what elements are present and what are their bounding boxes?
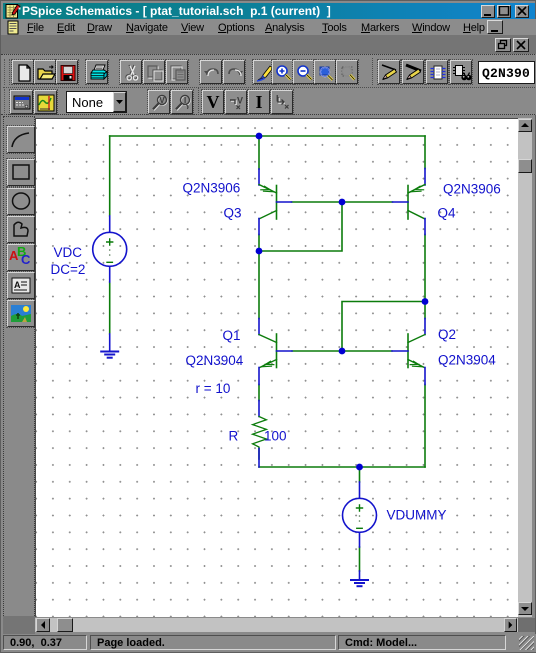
wire lower base rail <box>292 350 392 352</box>
node top rail junction <box>256 133 263 140</box>
row 2 <box>10 90 33 114</box>
svg-text:DC=2: DC=2 <box>51 262 86 277</box>
transistor Q3 (Q2N3906 PNP) <box>259 169 292 235</box>
row 1 <box>12 60 34 84</box>
svg-text:Q2N3904: Q2N3904 <box>438 353 496 368</box>
part name edit box <box>478 61 535 84</box>
wire Q4 emitter drop <box>424 136 426 169</box>
node bottom rail junction <box>356 464 363 471</box>
status bar <box>1 634 536 652</box>
svg-text:VDC: VDC <box>54 245 83 260</box>
svg-text:Q3: Q3 <box>224 206 242 221</box>
transistor Q1 (Q2N3904 NPN) <box>259 319 292 385</box>
transistor Q2 (Q2N3904 NPN) <box>392 319 425 385</box>
svg-text:R: R <box>229 429 239 444</box>
menu bar line 2 with MDI restore/close <box>1 35 536 54</box>
svg-text:Q4: Q4 <box>438 206 457 221</box>
menu bar line 1 <box>1 19 536 35</box>
wire Q3 emitter drop <box>258 136 260 169</box>
wire Q2 diode connection <box>342 302 425 352</box>
node Q3 collector junction <box>256 248 263 255</box>
voltage source VDUMMY <box>343 482 377 547</box>
svg-text:V: V <box>159 96 165 105</box>
wire upper base rail <box>292 201 393 203</box>
svg-text:Q1: Q1 <box>223 328 241 343</box>
title bar <box>3 3 535 19</box>
toolbar dock <box>1 54 536 115</box>
svg-text:A: A <box>14 280 21 290</box>
vertical scrollbar <box>518 118 532 617</box>
wire Q1 emitter to resistor <box>258 385 260 401</box>
svg-text:V: V <box>237 96 243 106</box>
wire Q2 emitter to bottom rail <box>424 385 426 468</box>
left tool strip <box>3 116 35 636</box>
wire Q3 diode connection <box>259 202 342 251</box>
svg-text:C: C <box>21 252 31 267</box>
ground (VDC) <box>101 334 118 358</box>
svg-text:Q2N3906: Q2N3906 <box>443 182 501 197</box>
wire bottom rail <box>259 466 425 468</box>
voltage source VDC <box>93 216 127 282</box>
svg-text:I: I <box>184 96 186 105</box>
svg-text:100: 100 <box>264 429 287 444</box>
none combo <box>66 91 127 113</box>
wire VDC to ground <box>109 282 111 334</box>
resistor R <box>253 401 267 468</box>
wire Q3 collector to Q1 collector <box>258 235 260 319</box>
ground (VDUMMY) <box>351 571 368 586</box>
wire VDUMMY to ground <box>359 547 361 571</box>
node junction dots <box>256 133 429 471</box>
horizontal scrollbar <box>35 618 518 632</box>
canvas <box>35 118 518 617</box>
svg-text:Q2N3906: Q2N3906 <box>183 181 241 196</box>
node Q2 collector junction <box>422 298 429 305</box>
wire resistor bottom stub <box>258 449 260 460</box>
wire top rail <box>110 135 425 137</box>
transistor Q4 (Q2N3906 PNP) <box>393 169 426 235</box>
svg-text:r = 10: r = 10 <box>196 381 231 396</box>
svg-text:Q2N3904: Q2N3904 <box>186 353 244 368</box>
svg-text:Q2: Q2 <box>438 327 456 342</box>
node lower base junction <box>339 348 346 355</box>
wire VDUMMY top <box>359 467 361 482</box>
node upper base junction <box>339 199 346 206</box>
wire VDC top drop <box>109 136 111 216</box>
wire Q4 collector down <box>424 235 426 319</box>
svg-text:VDUMMY: VDUMMY <box>387 508 447 523</box>
